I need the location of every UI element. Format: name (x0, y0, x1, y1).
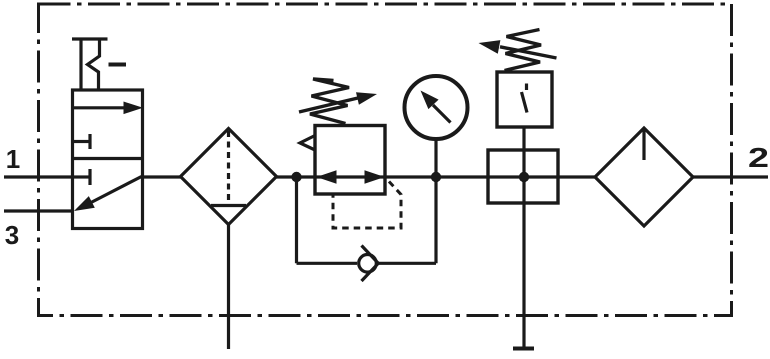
pressure switch PS1 contact box (497, 72, 552, 127)
svg-text:2: 2 (748, 142, 769, 173)
wire bypass right branch (434, 177, 437, 263)
node A junction dot (291, 172, 301, 182)
wire bypass bottom right segment (379, 262, 436, 265)
regulator R1 adjustment spring (310, 79, 349, 124)
node B junction dot (431, 172, 441, 182)
pressure gauge G1 (405, 76, 468, 139)
valve V1 bottom position blocked port (74, 169, 90, 185)
check valve CV1 (359, 246, 379, 282)
filter F1 (181, 129, 277, 225)
wire gauge stem (434, 139, 437, 177)
regulator R1 pilot line (dashed) (333, 182, 401, 229)
wire bypass bottom left segment (297, 262, 358, 265)
enclosure border (39, 4, 732, 316)
node 3 (port line) (4, 209, 74, 212)
valve V1 top position flow arrow (74, 102, 143, 115)
node C junction dot (519, 172, 529, 182)
valve V1 manual actuator (72, 39, 126, 90)
svg-text:1: 1 (6, 144, 20, 174)
wire bypass left branch (295, 177, 298, 263)
regulator R1 relief vent triangle (300, 136, 315, 151)
wire main line filter to lubricator (277, 175, 596, 178)
pressure switch PS1 adjustment arrow (479, 40, 557, 58)
regulator R1 flow arrows (317, 170, 385, 184)
valve V1 top position blocked port (74, 134, 90, 149)
exhaust end bar (513, 347, 534, 351)
regulator R1 body (315, 126, 385, 195)
filter F1 drain line (227, 225, 230, 350)
node 2 (port line) (693, 175, 768, 178)
regulator R1 adjustment arrow (299, 92, 377, 112)
valve V1 body (73, 90, 143, 229)
lubricator L1 (595, 128, 693, 226)
node 1 (port line) (4, 175, 74, 178)
pressure switch PS1 contact (522, 84, 528, 113)
svg-text:3: 3 (5, 220, 19, 250)
valve V1 bottom position exhaust arrow (74, 177, 142, 212)
pressure switch PS1 spring (505, 30, 542, 71)
pressure switch PS1 block (488, 150, 558, 203)
wire pressure switch vertical (522, 127, 525, 348)
wire valve to filter (141, 175, 182, 178)
